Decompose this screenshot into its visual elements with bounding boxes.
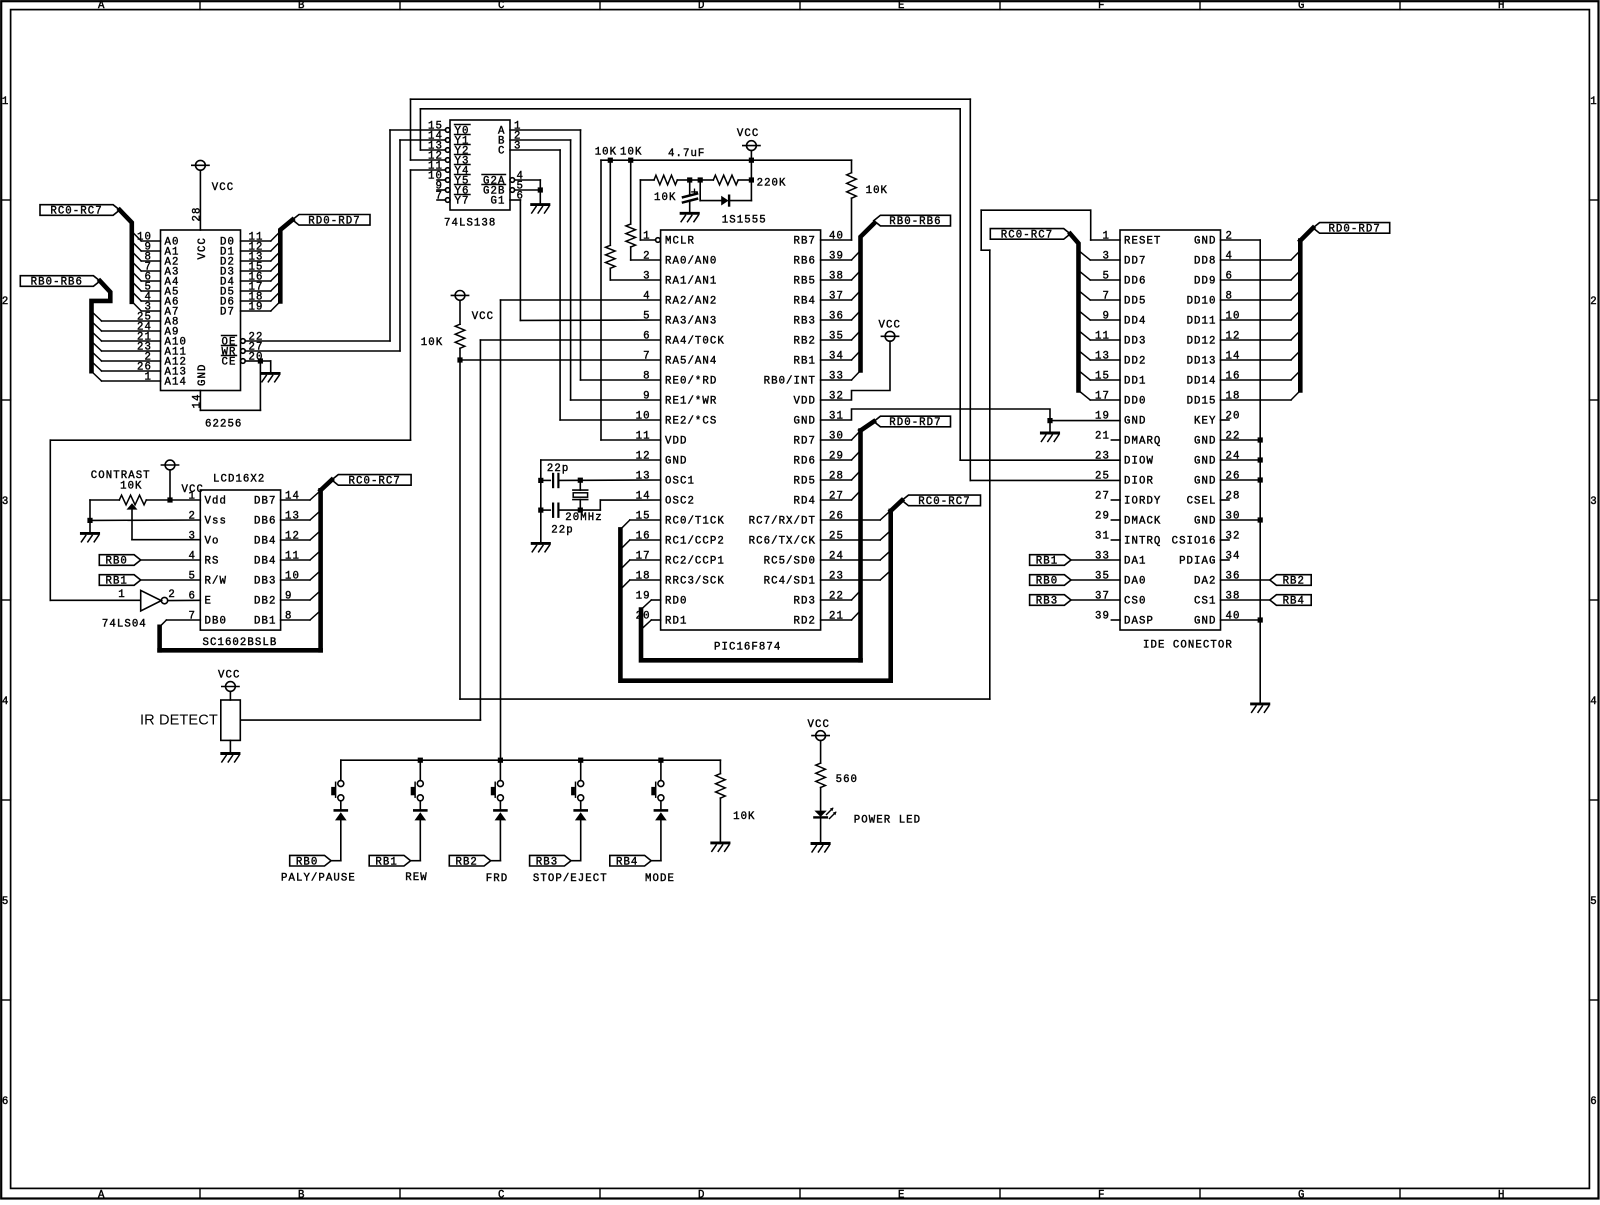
svg-text:9: 9 [643,391,650,403]
svg-text:GND: GND [1194,516,1216,528]
svg-text:DD14: DD14 [1187,376,1217,388]
svg-text:10K: 10K [733,811,755,823]
svg-text:10K: 10K [120,480,142,492]
svg-text:RA4/T0CK: RA4/T0CK [665,336,725,348]
svg-text:RC2/CCP1: RC2/CCP1 [665,556,725,568]
svg-text:RB2: RB2 [1283,576,1305,588]
svg-text:PIC16F874: PIC16F874 [714,642,781,654]
svg-text:2: 2 [168,589,175,601]
svg-text:RB3: RB3 [794,316,816,328]
svg-text:IR DETECT: IR DETECT [140,713,218,729]
svg-text:GND: GND [1194,476,1216,488]
svg-text:RB1: RB1 [794,356,816,368]
svg-text:19: 19 [1095,411,1110,423]
svg-text:E: E [898,0,905,12]
svg-text:1: 1 [1590,96,1597,108]
svg-text:RC7/RX/DT: RC7/RX/DT [749,516,816,528]
svg-text:DB1: DB1 [254,616,276,628]
svg-text:DB2: DB2 [254,596,276,608]
svg-text:RD5: RD5 [794,476,816,488]
svg-text:RE0/*RD: RE0/*RD [665,376,717,388]
svg-text:RB2: RB2 [794,336,816,348]
svg-text:6: 6 [2,1096,9,1108]
svg-text:RB3: RB3 [1036,596,1058,608]
svg-text:RS: RS [205,556,220,568]
svg-text:RD4: RD4 [794,496,816,508]
svg-text:RB0: RB0 [105,556,127,568]
svg-text:4: 4 [2,696,9,708]
svg-text:RB7: RB7 [794,236,816,248]
svg-text:GND: GND [1124,416,1146,428]
svg-text:RD2: RD2 [794,616,816,628]
svg-text:5: 5 [643,311,650,323]
svg-text:DMACK: DMACK [1124,516,1161,528]
svg-text:DB4: DB4 [254,536,276,548]
svg-text:A: A [98,1189,105,1200]
svg-text:C: C [498,1189,505,1200]
svg-text:1: 1 [118,589,125,601]
svg-text:Vo: Vo [205,536,220,548]
svg-text:RB0: RB0 [296,856,318,868]
svg-text:5: 5 [1590,896,1597,908]
svg-text:GND: GND [665,456,687,468]
svg-text:D: D [698,1189,705,1200]
svg-text:DD10: DD10 [1187,296,1217,308]
svg-text:DD7: DD7 [1124,256,1146,268]
svg-text:DD12: DD12 [1187,336,1217,348]
svg-text:DASP: DASP [1124,616,1154,628]
svg-text:B: B [298,1189,305,1200]
svg-text:GND: GND [1194,616,1216,628]
svg-text:RD0: RD0 [665,596,687,608]
svg-text:CE: CE [222,357,237,369]
svg-text:RE1/*WR: RE1/*WR [665,396,717,408]
svg-text:RD0-RD7: RD0-RD7 [889,417,941,429]
svg-text:STOP/EJECT: STOP/EJECT [533,873,608,885]
svg-text:RA0/AN0: RA0/AN0 [665,256,717,268]
svg-text:1: 1 [2,96,9,108]
svg-text:LCD16X2: LCD16X2 [213,474,265,486]
svg-text:RB0-RB6: RB0-RB6 [889,216,941,228]
svg-text:RC0-RC7: RC0-RC7 [349,476,401,488]
svg-text:CSEL: CSEL [1187,496,1217,508]
svg-text:F: F [1098,0,1105,12]
svg-text:DA0: DA0 [1124,576,1146,588]
svg-text:3: 3 [1590,496,1597,508]
svg-text:DMARQ: DMARQ [1124,436,1161,448]
svg-text:RB3: RB3 [536,856,558,868]
svg-text:C: C [498,0,505,12]
svg-text:74LS04: 74LS04 [102,618,147,630]
svg-text:8: 8 [643,371,650,383]
svg-text:RB1: RB1 [1036,556,1058,568]
svg-text:Vdd: Vdd [205,496,227,508]
svg-text:RC4/SD1: RC4/SD1 [764,576,816,588]
svg-text:G: G [1298,1189,1305,1200]
svg-text:RD3: RD3 [794,596,816,608]
svg-text:DD6: DD6 [1124,276,1146,288]
svg-text:RB4: RB4 [794,296,816,308]
svg-text:DD5: DD5 [1124,296,1146,308]
svg-text:VDD: VDD [794,396,816,408]
svg-text:4.7uF: 4.7uF [668,148,705,160]
svg-text:DD4: DD4 [1124,316,1146,328]
svg-text:21: 21 [1095,431,1110,443]
svg-text:POWER LED: POWER LED [854,815,921,827]
svg-text:A14: A14 [165,377,187,389]
svg-text:VDD: VDD [665,436,687,448]
svg-text:DB6: DB6 [254,516,276,528]
svg-text:RESET: RESET [1124,236,1161,248]
svg-text:OSC1: OSC1 [665,476,695,488]
svg-text:5: 5 [2,896,9,908]
svg-text:20MHz: 20MHz [565,512,602,524]
svg-text:E: E [898,1189,905,1200]
svg-text:R/W: R/W [205,576,227,588]
svg-text:D: D [698,0,705,12]
svg-text:DD9: DD9 [1194,276,1216,288]
svg-text:H: H [1498,1189,1505,1200]
svg-text:2: 2 [1590,296,1597,308]
svg-text:H: H [1498,0,1505,12]
svg-text:VCC: VCC [737,128,759,140]
svg-text:1: 1 [643,231,650,243]
svg-text:VCC: VCC [218,670,240,682]
svg-text:RB2: RB2 [455,856,477,868]
svg-text:CS0: CS0 [1124,596,1146,608]
svg-text:10K: 10K [654,192,676,204]
svg-text:RB0/INT: RB0/INT [764,376,816,388]
svg-text:A: A [98,0,105,12]
svg-text:220K: 220K [757,177,787,189]
svg-text:VCC: VCC [879,320,901,332]
svg-text:RD6: RD6 [794,456,816,468]
svg-text:DD1: DD1 [1124,376,1146,388]
svg-text:VCC: VCC [182,484,204,496]
svg-text:3: 3 [2,496,9,508]
svg-text:28: 28 [192,207,204,222]
svg-text:B: B [298,0,305,12]
svg-text:RD0-RD7: RD0-RD7 [1328,224,1380,236]
svg-text:C: C [498,146,505,158]
svg-text:OSC2: OSC2 [665,496,695,508]
svg-text:CS1: CS1 [1194,596,1216,608]
svg-text:23: 23 [1095,451,1110,463]
svg-text:19: 19 [636,591,651,603]
svg-text:RB1: RB1 [375,856,397,868]
svg-text:22p: 22p [551,524,573,536]
svg-text:RD1: RD1 [665,616,687,628]
svg-text:RB4: RB4 [616,856,638,868]
svg-text:Y7: Y7 [455,196,470,208]
svg-text:MODE: MODE [645,873,675,885]
svg-text:GND: GND [1194,236,1216,248]
svg-text:IORDY: IORDY [1124,496,1161,508]
svg-text:RD7: RD7 [794,436,816,448]
svg-text:DB7: DB7 [254,496,276,508]
svg-text:VCC: VCC [197,237,209,259]
svg-text:CSIO16: CSIO16 [1172,536,1217,548]
svg-text:1S1555: 1S1555 [722,215,767,227]
svg-text:KEY: KEY [1194,416,1216,428]
svg-text:RB5: RB5 [794,276,816,288]
svg-text:10K: 10K [421,337,443,349]
svg-text:62256: 62256 [205,419,242,431]
svg-text:29: 29 [1095,511,1110,523]
svg-text:25: 25 [1095,471,1110,483]
svg-text:DD3: DD3 [1124,336,1146,348]
svg-text:DD11: DD11 [1187,316,1217,328]
svg-text:D7: D7 [220,307,235,319]
svg-text:G1: G1 [491,196,506,208]
svg-text:PALY/PAUSE: PALY/PAUSE [281,873,356,885]
svg-text:VCC: VCC [212,182,234,194]
svg-text:6: 6 [1590,1096,1597,1108]
svg-text:F: F [1098,1189,1105,1200]
svg-text:RE2/*CS: RE2/*CS [665,416,717,428]
svg-text:560: 560 [836,774,858,786]
svg-text:DIOW: DIOW [1124,456,1154,468]
svg-text:4: 4 [1590,696,1597,708]
svg-text:DD2: DD2 [1124,356,1146,368]
svg-text:REW: REW [405,872,427,884]
svg-text:INTRQ: INTRQ [1124,536,1161,548]
svg-text:Vss: Vss [205,516,227,528]
svg-text:RA2/AN2: RA2/AN2 [665,296,717,308]
svg-text:11: 11 [636,431,651,443]
svg-text:DB3: DB3 [254,576,276,588]
svg-text:RC1/CCP2: RC1/CCP2 [665,536,725,548]
svg-text:GND: GND [794,416,816,428]
svg-text:DB4: DB4 [254,556,276,568]
svg-text:RB6: RB6 [794,256,816,268]
svg-text:14: 14 [192,394,204,409]
svg-text:RD0-RD7: RD0-RD7 [308,215,360,227]
svg-text:DD0: DD0 [1124,396,1146,408]
svg-text:DA2: DA2 [1194,576,1216,588]
svg-text:DD13: DD13 [1187,356,1217,368]
svg-text:SC1602BSLB: SC1602BSLB [203,637,278,649]
svg-text:39: 39 [1095,611,1110,623]
svg-text:G: G [1298,0,1305,12]
svg-text:19: 19 [249,302,264,314]
svg-text:FRD: FRD [486,873,508,885]
svg-text:GND: GND [197,364,209,386]
svg-text:PDIAG: PDIAG [1179,556,1216,568]
svg-text:MCLR: MCLR [665,236,695,248]
svg-text:10K: 10K [595,146,617,158]
svg-text:DB0: DB0 [205,616,227,628]
svg-text:2: 2 [2,296,9,308]
svg-text:RC5/SD0: RC5/SD0 [764,556,816,568]
svg-text:27: 27 [1095,491,1110,503]
svg-text:RB0-RB6: RB0-RB6 [31,277,83,289]
svg-text:VCC: VCC [808,719,830,731]
svg-text:RA1/AN1: RA1/AN1 [665,276,717,288]
svg-text:RB1: RB1 [105,576,127,588]
svg-text:VCC: VCC [472,311,494,323]
svg-text:10K: 10K [620,146,642,158]
svg-text:RB0: RB0 [1036,576,1058,588]
svg-text:DD15: DD15 [1187,396,1217,408]
svg-text:31: 31 [1095,531,1110,543]
svg-text:DIOR: DIOR [1124,476,1154,488]
svg-text:RC0-RC7: RC0-RC7 [918,496,970,508]
svg-text:RRC3/SCK: RRC3/SCK [665,576,725,588]
svg-text:RA3/AN3: RA3/AN3 [665,316,717,328]
svg-text:3: 3 [643,271,650,283]
svg-text:GND: GND [1194,436,1216,448]
svg-text:RC0/T1CK: RC0/T1CK [665,516,725,528]
svg-text:IDE CONECTOR: IDE CONECTOR [1143,639,1233,651]
svg-text:DD8: DD8 [1194,256,1216,268]
svg-text:E: E [205,596,212,608]
svg-text:10: 10 [636,411,651,423]
svg-text:RC0-RC7: RC0-RC7 [1001,230,1053,242]
svg-text:1: 1 [1103,231,1110,243]
svg-text:3: 3 [189,531,196,543]
svg-text:RC0-RC7: RC0-RC7 [50,206,102,218]
svg-text:DA1: DA1 [1124,556,1146,568]
svg-text:GND: GND [1194,456,1216,468]
svg-text:RA5/AN4: RA5/AN4 [665,356,717,368]
svg-text:RB4: RB4 [1283,596,1305,608]
svg-text:2: 2 [643,251,650,263]
svg-text:10K: 10K [866,185,888,197]
svg-text:74LS138: 74LS138 [444,217,496,229]
svg-text:RC6/TX/CK: RC6/TX/CK [749,536,816,548]
